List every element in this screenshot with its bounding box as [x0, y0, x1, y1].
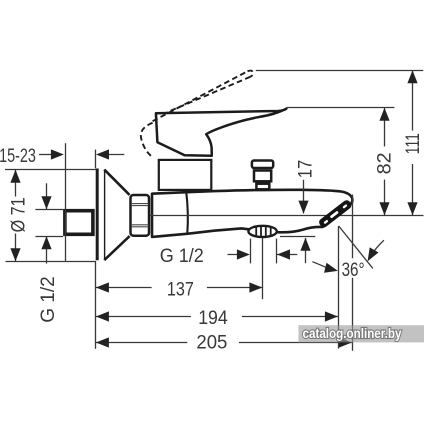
svg-text:G 1/2: G 1/2	[160, 246, 204, 267]
wall line	[65, 143, 67, 261]
svg-text:205: 205	[196, 333, 227, 354]
arrow 36deg slant leader	[363, 247, 378, 263]
arrow 15-23 right tip	[51, 149, 64, 159]
36deg leaders	[312, 262, 328, 269]
escutcheon ext top	[95, 150, 97, 169]
svg-text:17: 17	[296, 160, 317, 179]
svg-text:137: 137	[167, 279, 194, 300]
handle lever	[156, 109, 287, 156]
escutcheon cone top edge	[104, 170, 129, 195]
137 dim	[96, 287, 152, 289]
shower hose outlet oval	[248, 226, 276, 237]
arrow union bottom	[41, 236, 51, 249]
205 ext line	[352, 195, 354, 259]
faucet body (main cylinder + spout)	[152, 190, 352, 237]
watermark strip	[299, 325, 424, 342]
diverter knob neck	[256, 184, 269, 190]
svg-text:catalog.onliner.by: catalog.onliner.by	[303, 326, 402, 341]
G1/2 dim leaders	[228, 254, 245, 256]
svg-text:36°: 36°	[342, 260, 365, 281]
arrow 137 left	[96, 282, 109, 292]
arrow 111 bottom	[407, 202, 417, 215]
arrow 17 top	[298, 201, 308, 214]
diverter knob body	[254, 171, 271, 182]
svg-text:194: 194	[198, 308, 228, 329]
arrow union top	[41, 196, 51, 209]
spout tip bottom ref	[280, 236, 315, 238]
arrow 205 left	[96, 337, 109, 347]
body section line	[186, 192, 188, 234]
arrow 36deg leader	[324, 263, 339, 276]
arrow 194 left	[96, 311, 109, 321]
arrow 82 top	[379, 108, 389, 121]
arrow G1/2 right	[277, 249, 290, 259]
dia71 dim shafts	[15, 170, 17, 197]
15-23 dim	[39, 154, 53, 156]
arrow 82 bottom	[379, 202, 389, 215]
arrow dia71 bottom	[10, 248, 20, 261]
square edge ext lines	[35, 209, 63, 211]
arrow G1/2 left	[237, 249, 250, 259]
svg-text:111: 111	[403, 133, 424, 154]
wall union square	[65, 211, 93, 235]
svg-text:G 1/2: G 1/2	[38, 276, 59, 323]
diverter knob cap	[252, 161, 273, 169]
aerator capsule at spout tip	[318, 199, 353, 229]
square dim shafts	[46, 183, 48, 209]
union nut	[131, 195, 150, 236]
top reference lines	[256, 70, 423, 72]
svg-text:Ø 71: Ø 71	[9, 197, 30, 232]
82 dim shafts	[384, 108, 386, 147]
svg-text:15-23: 15-23	[0, 146, 36, 167]
194 dim	[96, 316, 191, 318]
dia 71 top/bottom lines	[5, 169, 96, 171]
arrow 194 right	[325, 311, 338, 321]
111 dim shafts	[412, 70, 414, 130]
17 dim shafts	[303, 180, 305, 214]
194 ext line	[338, 226, 340, 349]
centerline through body	[142, 215, 424, 217]
arrow 15-23 left tip	[96, 149, 109, 159]
arrow dia71 top	[10, 170, 20, 183]
36 deg slant	[339, 226, 373, 269]
G1/2 bottom ext lines	[250, 239, 252, 264]
arrow 205 right	[339, 337, 352, 347]
arrow 17 bottom	[300, 238, 310, 251]
escutcheon face inner	[104, 170, 106, 261]
escutcheon cone bottom edge	[104, 236, 129, 260]
dashed raised handle	[141, 71, 253, 158]
137 ext line	[262, 238, 264, 299]
cartridge housing	[159, 160, 212, 190]
escutcheon face outer	[96, 169, 99, 261]
svg-text:82: 82	[374, 152, 395, 174]
205 dim	[96, 342, 187, 344]
arrow 137 right	[249, 282, 262, 292]
arrow 111 top	[407, 70, 417, 83]
escutcheon ext bottom	[95, 261, 97, 349]
